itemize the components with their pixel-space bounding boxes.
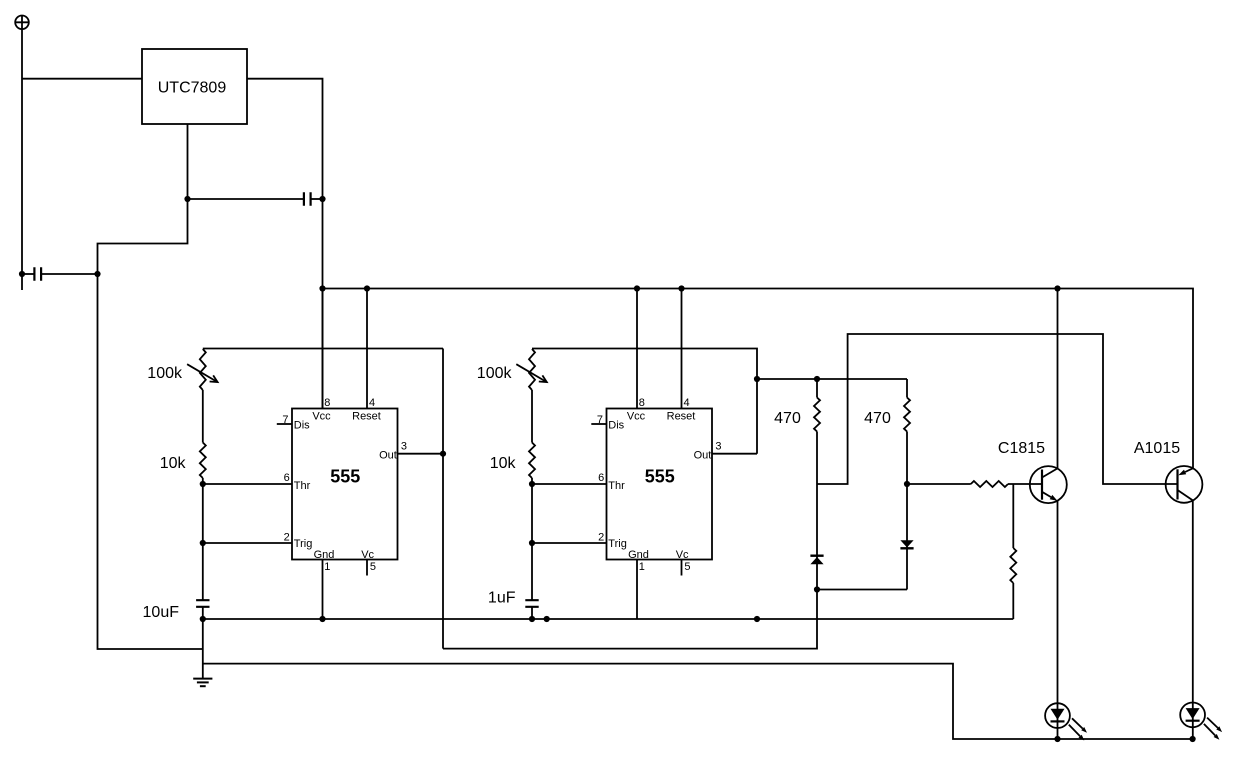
svg-text:Thr: Thr — [608, 480, 625, 492]
svg-text:Trig: Trig — [608, 538, 627, 550]
wire R7 to Q1 base — [1008, 483, 1042, 485]
U2 pin5 Vc stub — [681, 560, 683, 576]
svg-text:Trig: Trig — [294, 538, 313, 550]
junction Vcc rail / 555 U2 pin8 — [634, 285, 640, 291]
svg-text:A1015: A1015 — [1134, 440, 1180, 457]
U2 pin7 Dis stub — [591, 423, 606, 425]
wire D1 node to Q2 base — [817, 334, 1178, 484]
svg-text:6: 6 — [598, 472, 604, 484]
wire capacitor C2 to gnd column — [41, 273, 97, 275]
svg-text:8: 8 — [324, 397, 330, 409]
resistor R6 470 zigzag — [904, 398, 910, 432]
junction LED1 cathode / ground wire — [1054, 736, 1060, 742]
diode D2 — [900, 540, 913, 548]
svg-text:UTC7809: UTC7809 — [158, 80, 227, 97]
wire capacitor C1 to Vcc column — [311, 198, 323, 200]
wire + line to capacitor C2 — [22, 273, 34, 275]
svg-text:1: 1 — [324, 561, 330, 573]
junction LED2 cathode / ground wire — [1190, 736, 1196, 742]
wire D1 bottom to D2 bottom — [817, 589, 907, 591]
svg-text:Out: Out — [694, 450, 712, 462]
wire capacitor C3 to ground — [202, 607, 204, 679]
potentiometer R1 wiper arrow shaft — [187, 364, 218, 382]
wire top of oscillator 2 — [532, 349, 757, 454]
capacitor C1 plates — [304, 192, 311, 205]
svg-text:3: 3 — [715, 441, 721, 453]
LED2 — [1180, 703, 1222, 740]
junction C4 / ground rail — [529, 616, 535, 622]
node threshold U2 — [529, 481, 535, 487]
potentiometer R3 wiper arrowhead — [539, 375, 547, 382]
ground rail wire — [203, 618, 1014, 620]
svg-text:2: 2 — [598, 532, 604, 544]
svg-text:6: 6 — [284, 472, 290, 484]
svg-text:Dis: Dis — [294, 419, 310, 431]
resistor R8 pulldown zigzag — [1010, 548, 1016, 583]
svg-text:C1815: C1815 — [998, 440, 1045, 457]
svg-text:Vc: Vc — [361, 549, 374, 561]
U2 pin8 Vcc wire — [636, 289, 638, 409]
node trigger U2 — [529, 540, 535, 546]
U1 pin4 Reset wire — [366, 289, 368, 409]
junction C3 / ground rail — [200, 616, 206, 622]
wire U1 pin6 Thr — [203, 483, 292, 485]
svg-text:100k: 100k — [147, 365, 183, 382]
svg-text:470: 470 — [774, 410, 801, 427]
resistor R5 470 zigzag — [814, 398, 820, 432]
U1 pin8 Vcc wire — [322, 289, 324, 409]
ground wire to LED cathodes — [203, 664, 1193, 739]
svg-text:1: 1 — [639, 561, 645, 573]
svg-text:10k: 10k — [160, 455, 187, 472]
svg-text:Dis: Dis — [608, 419, 624, 431]
junction U1 gnd / ground rail — [319, 616, 325, 622]
svg-text:Out: Out — [379, 450, 397, 462]
wire base node to R7 — [907, 483, 971, 485]
svg-text:555: 555 — [645, 467, 675, 487]
svg-text:4: 4 — [369, 397, 375, 409]
Vcc rail wire — [323, 289, 1194, 469]
svg-text:2: 2 — [284, 532, 290, 544]
U2 pin1 Gnd wire — [636, 560, 638, 620]
U2 pin4 Reset wire — [681, 289, 683, 409]
svg-text:Gnd: Gnd — [628, 549, 649, 561]
svg-text:1uF: 1uF — [488, 590, 516, 607]
wire UTC7809 ground pin to left rail — [98, 124, 203, 649]
wire + terminal to UTC7809 input — [22, 78, 142, 80]
junction + line / C2 — [19, 271, 25, 277]
svg-text:Vcc: Vcc — [312, 410, 331, 422]
Q2 collector wire to LED2 — [1192, 500, 1194, 739]
U1 pin7 Dis stub — [277, 423, 292, 425]
svg-text:8: 8 — [639, 397, 645, 409]
wire R4 to capacitor C4 — [531, 478, 533, 600]
Q1 collector wire — [1057, 289, 1059, 469]
U1 pin1 Gnd wire — [322, 560, 324, 620]
junction U1 out — [440, 451, 446, 457]
junction regulator gnd / C1 — [184, 196, 190, 202]
wire U2 pin2 Trig — [532, 542, 607, 544]
junction base node R6/D2 — [904, 481, 910, 487]
svg-text:Vcc: Vcc — [627, 410, 646, 422]
node threshold U1 — [200, 481, 206, 487]
battery positive terminal + — [15, 15, 29, 29]
junction Vcc rail / 555 U2 pin4 — [678, 285, 684, 291]
diode D1 — [810, 556, 823, 565]
wire U2 out to 470 resistors — [757, 378, 907, 380]
wire R5 to diode D1 — [816, 432, 818, 590]
potentiometer R1 wiper arrowhead — [210, 375, 218, 382]
wire base node down — [1012, 484, 1014, 548]
svg-text:100k: 100k — [477, 365, 513, 382]
svg-text:4: 4 — [684, 397, 690, 409]
svg-text:555: 555 — [330, 467, 360, 487]
op IC 555 U1 body — [292, 409, 398, 560]
wire R3 to R4 — [531, 390, 533, 443]
svg-text:5: 5 — [684, 561, 690, 573]
svg-text:Vc: Vc — [676, 549, 689, 561]
junction Vcc rail / Q1 collector — [1054, 285, 1060, 291]
capacitor C3 10uF plates — [196, 600, 209, 607]
svg-text:5: 5 — [370, 561, 376, 573]
potentiometer R1 100k zigzag — [200, 349, 206, 390]
svg-text:Reset: Reset — [352, 410, 381, 422]
junction C2 / gnd column — [94, 271, 100, 277]
potentiometer R3 wiper arrow shaft — [516, 364, 547, 382]
wire U1 pin2 Trig — [203, 542, 292, 544]
svg-text:10uF: 10uF — [143, 604, 180, 621]
capacitor C4 1uF plates — [525, 600, 538, 607]
U1 pin3 Out wire — [398, 453, 444, 455]
U1 out feedback vertical wire — [442, 349, 444, 649]
ground rail stray junction a — [544, 616, 550, 622]
junction Vcc rail / 555 U1 pin4 — [364, 285, 370, 291]
potentiometer R3 100k zigzag — [529, 349, 535, 390]
svg-text:Gnd: Gnd — [314, 549, 335, 561]
wire top of oscillator 1 — [203, 348, 443, 350]
svg-text:10k: 10k — [490, 455, 517, 472]
wire from + terminal down to left capacitor node — [21, 29, 23, 290]
svg-text:Thr: Thr — [294, 480, 311, 492]
voltage regulator UTC7809 — [142, 49, 247, 124]
junction U2 out node — [754, 376, 760, 382]
transistor Q2 A1015 — [1166, 466, 1203, 503]
svg-text:Reset: Reset — [667, 410, 696, 422]
resistor R7 base zigzag — [971, 481, 1008, 487]
op IC 555 U2 body — [607, 409, 713, 560]
resistor R4 10k zigzag — [529, 443, 535, 479]
wire R1 to R2 — [202, 390, 204, 443]
LED1 — [1045, 703, 1087, 740]
junction C1 / Vcc column — [319, 196, 325, 202]
transistor Q1 C1815 — [1030, 466, 1067, 503]
wire R5 top — [816, 379, 818, 398]
U1 pin5 Vc stub — [366, 560, 368, 576]
junction D1 / D2 bottoms — [814, 586, 820, 592]
resistor R2 10k zigzag — [200, 443, 206, 479]
wire U2 pin6 Thr — [532, 483, 607, 485]
wire to capacitor C1 — [188, 198, 304, 200]
wire R2 to capacitor C3 — [202, 478, 204, 600]
junction Vcc rail / 555 U1 pin8 — [319, 285, 325, 291]
junction 470 R5 top — [814, 376, 820, 382]
wire R6 to diode D2 to bottom — [906, 432, 908, 590]
wire R6 top — [906, 379, 908, 398]
wire UTC7809 output to Vcc rail — [247, 79, 323, 409]
wire capacitor C4 to ground rail — [531, 607, 533, 619]
svg-text:470: 470 — [864, 410, 891, 427]
U2 pin3 Out wire — [712, 453, 757, 455]
ground rail stray junction b — [754, 616, 760, 622]
wire U1 out to D1 branch — [443, 590, 817, 649]
wire R8 to ground rail — [1012, 583, 1014, 619]
capacitor C2 plates — [34, 267, 41, 280]
ground — [193, 679, 212, 687]
node trigger U1 — [200, 540, 206, 546]
Q1 emitter wire to LED1 — [1057, 501, 1059, 739]
svg-text:3: 3 — [401, 441, 407, 453]
